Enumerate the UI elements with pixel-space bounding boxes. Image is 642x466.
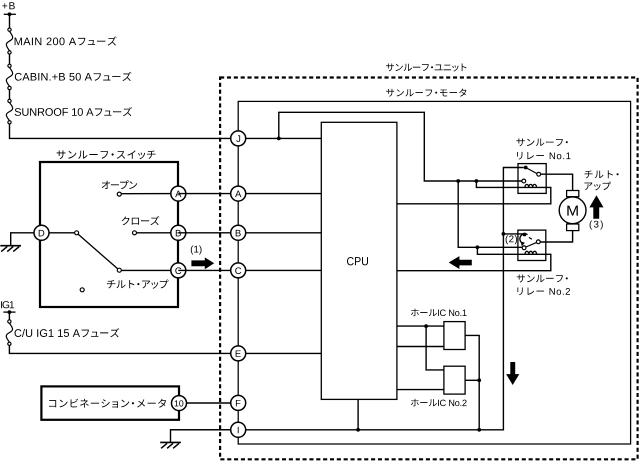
- hall IC U3 box: [444, 322, 465, 350]
- terminal B: [231, 225, 246, 240]
- terminal A: [231, 186, 246, 201]
- label hall IC No.1: [411, 309, 467, 316]
- wire J to CPU: [238, 137, 321, 139]
- switch box: [40, 162, 178, 307]
- sunroof unit dashed box: [220, 78, 637, 460]
- wire CPU to hallIC2 b: [397, 389, 444, 391]
- hall IC U4 box: [444, 366, 465, 394]
- label sunroof unit title: [386, 63, 467, 71]
- fuse F1 MAIN 200A: [6, 28, 12, 54]
- label tilt-up line2: [584, 181, 611, 190]
- terminal D: [34, 225, 49, 240]
- node relay bus 1: [456, 179, 460, 183]
- contact close: [133, 231, 137, 235]
- wire branch to relay1 coil: [397, 181, 551, 204]
- ground G2: [160, 442, 181, 448]
- wire branch to hallIC2 a: [426, 326, 444, 370]
- label close: [122, 216, 160, 225]
- relay2 arm stub: [529, 237, 532, 239]
- switch arm: [78, 234, 118, 269]
- wire hallIC1 out: [465, 335, 479, 429]
- label relay2 line1: [517, 275, 568, 283]
- label MAIN 200 A fuse: [15, 36, 117, 45]
- label tilt-up line1: [585, 170, 619, 178]
- sunroof motor box: [238, 101, 630, 444]
- wire CPU to hallIC1 a: [397, 325, 444, 327]
- motor terminal bottom: [567, 224, 579, 231]
- label (3): [590, 220, 603, 229]
- label sunroof motor title: [386, 89, 466, 97]
- wire close contact to B: [137, 232, 179, 234]
- arrow open direction down: [506, 362, 519, 385]
- relay2 contact NO: [536, 240, 540, 244]
- wire bus to relay2 contact: [458, 181, 522, 247]
- wire +B vertical bus: [9, 14, 11, 28]
- IG1 feed tick: [3, 311, 15, 313]
- fuse F3 SUNROOF 10A: [6, 99, 12, 124]
- terminal E: [231, 346, 246, 361]
- arrow close direction left: [449, 256, 472, 269]
- wire fuse to terminal J: [10, 124, 239, 138]
- wire IG1 fuse to terminal E: [9, 346, 321, 354]
- node relay bus 2: [475, 179, 479, 183]
- wire meter 10 to F: [187, 402, 239, 404]
- node J branch: [277, 137, 281, 141]
- wire CPU to ground bus: [357, 399, 359, 429]
- wire open contact to A: [121, 193, 178, 195]
- terminal I: [231, 422, 246, 437]
- label open: [102, 180, 138, 189]
- motor terminal top: [567, 191, 579, 197]
- label (2): [506, 235, 518, 244]
- label tilt-up: [107, 279, 169, 288]
- node CPU ground: [356, 428, 360, 432]
- label hall IC No.2: [411, 399, 467, 406]
- relay2 actuate arc: [520, 234, 528, 243]
- switch terminal A: [171, 186, 186, 201]
- arrow (1) right: [191, 257, 214, 269]
- wire CPU to hallIC1 b: [397, 346, 444, 348]
- terminal J: [231, 131, 246, 146]
- relay U2 box: [518, 230, 546, 260]
- contact open: [117, 192, 121, 196]
- fuse F2 CABIN.+B 50A: [6, 64, 12, 90]
- wire B to CPU: [178, 232, 321, 234]
- arrow (3) up: [589, 195, 603, 219]
- fuse F4 C/U IG1 15A: [6, 320, 12, 346]
- wire to relay2 common: [503, 233, 524, 235]
- label C/U IG1 15 A fuse: [14, 328, 119, 337]
- relay1 contact NC: [522, 179, 526, 183]
- combination meter box: [41, 386, 179, 419]
- battery feed tick: [4, 13, 16, 15]
- label sunroof switch title: [57, 150, 156, 159]
- label (1): [191, 245, 202, 254]
- relay2 arm: [526, 243, 537, 247]
- motor M1: [559, 197, 586, 224]
- power +B: [2, 2, 15, 9]
- node hall ground: [477, 428, 481, 432]
- wire F1-F2: [9, 54, 11, 64]
- relay2 coil: [525, 251, 537, 254]
- wire C to CPU: [178, 269, 321, 271]
- node +B: [8, 12, 12, 16]
- relay1 arm: [526, 168, 537, 174]
- node IG1: [7, 310, 11, 314]
- wire relay common vertical: [171, 168, 524, 430]
- wire D to pivot: [49, 232, 75, 234]
- terminal F: [231, 395, 246, 410]
- relay1 contact NO: [537, 172, 541, 176]
- relay2 common dot: [523, 233, 527, 237]
- wire relay2 NO to motor: [540, 231, 572, 242]
- wire J branch to relay bus: [279, 112, 522, 181]
- wire IG1 down: [8, 312, 10, 320]
- relay2 contact NC: [522, 246, 526, 250]
- label relay1 line1: [517, 138, 568, 146]
- contact neutral: [80, 288, 84, 292]
- relay1 coil: [525, 184, 537, 187]
- wire A to CPU: [178, 193, 321, 195]
- wire F2-F3: [9, 90, 11, 100]
- label SUNROOF 10 A fuse: [15, 107, 132, 116]
- wire D to ground: [11, 233, 34, 245]
- label CPU: [347, 257, 368, 265]
- node relay2 common branch: [502, 232, 506, 236]
- terminal C: [231, 263, 246, 278]
- label relay2 line2: [517, 287, 570, 295]
- switch terminal C: [171, 263, 186, 278]
- wire tilt contact to C: [121, 269, 178, 271]
- CPU box: [321, 122, 397, 399]
- wire hallIC2 out: [465, 379, 479, 381]
- node hallIC branch: [424, 324, 428, 328]
- node relay2 coil branch: [476, 245, 480, 249]
- wire I to ground: [171, 430, 239, 442]
- label relay1 line2: [517, 152, 570, 160]
- contact tilt-up: [117, 268, 121, 272]
- power IG1: [1, 301, 14, 308]
- wire relay1 NO to motor: [541, 174, 573, 190]
- wire branch to relay2 coil: [397, 247, 551, 270]
- relay U1 box: [518, 164, 546, 194]
- terminal 10: [172, 396, 187, 411]
- switch pivot contact: [75, 231, 79, 235]
- label combination meter: [49, 399, 166, 408]
- relay1 common dot: [524, 166, 528, 170]
- switch terminal B: [171, 225, 186, 240]
- node hallIC2 out: [477, 378, 481, 382]
- label CABIN.+B 50 A fuse: [15, 72, 132, 81]
- ground G1: [0, 246, 21, 252]
